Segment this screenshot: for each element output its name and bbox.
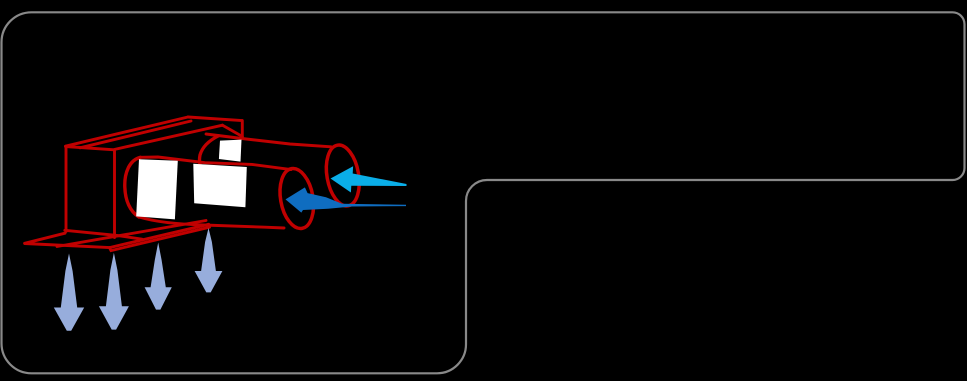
beam end-right vertical c	[241, 121, 244, 138]
beam front-top edge d	[114, 125, 222, 149]
front cylinder end ellipse	[276, 166, 318, 231]
beam end slant edge b2	[223, 125, 243, 136]
white patch 1	[136, 159, 178, 219]
white patch 2	[193, 164, 247, 208]
down arrow 4	[195, 228, 223, 292]
down arrow 2	[99, 253, 129, 330]
beam front-left vertical f	[65, 146, 68, 231]
front cylinder bottom line	[139, 217, 284, 228]
white patch 3	[219, 140, 242, 162]
upper cylinder top line	[206, 134, 331, 147]
beam inner-top edge a2	[80, 121, 191, 148]
beam left face bottom edge h	[65, 230, 142, 239]
beam front-right vertical g	[113, 150, 116, 238]
light blue arrow into upper cylinder	[331, 166, 407, 192]
front cylinder top line	[141, 157, 292, 170]
flange front edge	[110, 224, 209, 247]
beam left-end top edge e	[66, 147, 115, 150]
dark blue arrow into front cylinder	[286, 187, 407, 212]
upper cylinder left end cap	[199, 136, 218, 165]
flange tip upper edge	[25, 233, 65, 243]
flange back edge	[57, 221, 206, 247]
front cylinder left end cap	[125, 157, 141, 217]
beam back-top edge a	[66, 117, 189, 146]
down arrow 1	[54, 254, 84, 331]
flange left-front edge	[25, 244, 110, 248]
beam end-top edge b	[188, 117, 242, 121]
upper cylinder end ellipse	[322, 142, 364, 208]
down arrow 3	[145, 243, 172, 310]
flange thickness edge	[110, 227, 210, 250]
